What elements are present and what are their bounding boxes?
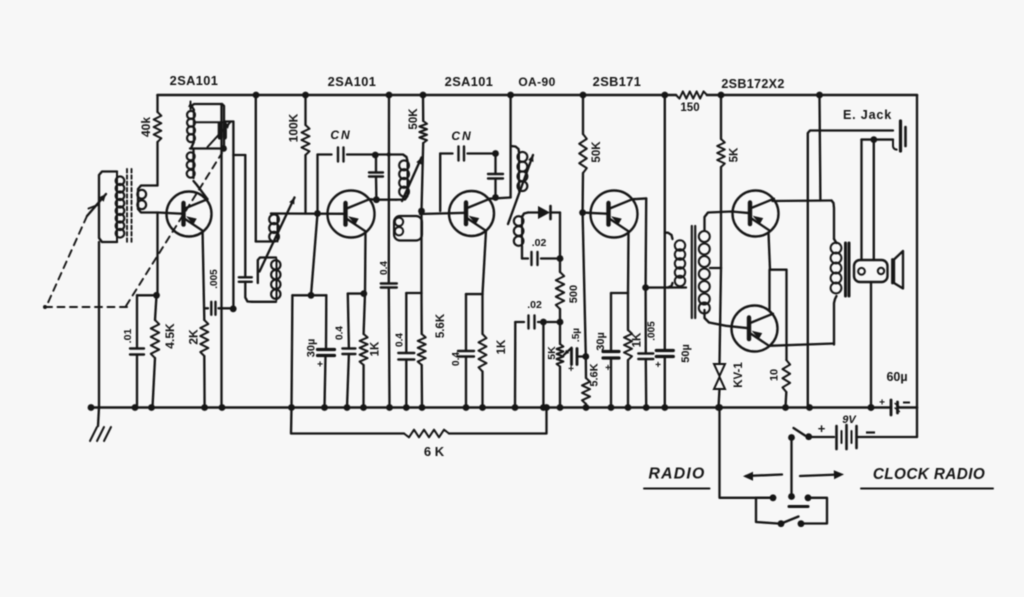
svg-text:2K: 2K [187, 329, 201, 345]
tuning capacitor gang [208, 123, 231, 148]
wire top supply rail [158, 94, 677, 97]
capacitor .005 emitter [204, 269, 233, 315]
capacitor 5u coupling [568, 328, 586, 375]
svg-text:+: + [317, 360, 323, 371]
wire base T2 to bias network [316, 155, 318, 214]
wire bottom ground rail [91, 406, 891, 409]
svg-text:30µ: 30µ [306, 339, 318, 358]
wire .02 left leg [514, 322, 517, 408]
resistor 5K pot lower [546, 322, 563, 408]
wire tuner cap top stub [224, 120, 233, 122]
svg-text:CLOCK RADIO: CLOCK RADIO [873, 466, 985, 483]
wire osc cap branch [233, 155, 245, 277]
diode OA-90 [528, 206, 560, 219]
svg-text:5K: 5K [729, 147, 741, 162]
wire rail to T2 input coil [253, 92, 272, 242]
capacitor .04 bias T3 [395, 293, 422, 408]
wiper arrow volume [564, 348, 572, 355]
svg-text:5K: 5K [546, 346, 558, 360]
wire jog to .01 branch [137, 294, 158, 296]
svg-text:2SA101: 2SA101 [170, 73, 219, 88]
svg-text:CN: CN [330, 128, 351, 142]
capacitor .02 upper [522, 237, 563, 265]
wire .02 tap down [542, 322, 544, 408]
svg-text:2SB171: 2SB171 [593, 74, 642, 89]
svg-text:+: + [568, 364, 574, 375]
svg-text:5.6K: 5.6K [435, 313, 447, 338]
IF transformer T3 secondary coil [514, 213, 528, 259]
wire bias T3 down [420, 211, 422, 293]
resistor 10 emitter [769, 270, 791, 408]
capacitor 50u electrolytic [655, 344, 692, 407]
earphone plug symbol [893, 121, 906, 151]
node collector T2 [370, 198, 377, 201]
svg-text:.02: .02 [532, 237, 547, 249]
svg-text:RADIO: RADIO [649, 466, 706, 483]
svg-text:+: + [605, 363, 611, 374]
wire base T4 [583, 213, 609, 214]
wire emitter T4 [627, 231, 630, 293]
capacitor 0.4 emitter T2 [335, 294, 356, 408]
wire collector T2 to coil [376, 199, 396, 201]
wire rail to output transformer [816, 92, 823, 201]
switch lower S2 [778, 517, 805, 528]
svg-text:1K: 1K [632, 332, 644, 347]
capacitor 30u driver emitter [595, 293, 628, 408]
wire antenna to ground rail [98, 242, 100, 408]
resistor 50K bias stage3 [408, 92, 427, 211]
svg-text:+: + [818, 421, 826, 436]
wire bias node T2 [292, 292, 326, 299]
node bias T1 [153, 292, 160, 299]
coupling coil L2 [137, 186, 157, 213]
capacitor 30u electrolytic [306, 295, 335, 407]
resistor 40k [139, 95, 161, 186]
node tuner box corner [220, 145, 227, 152]
wire collector Q5 [773, 201, 835, 240]
resistor 150 inline in top rail [676, 91, 707, 114]
node .02 tap [540, 319, 547, 326]
svg-text:+: + [879, 398, 885, 409]
node base driver [579, 209, 586, 216]
dashed tuning gang linkage [43, 153, 222, 309]
wire jack sleeve line [806, 131, 893, 411]
speaker [893, 251, 904, 289]
oscillator feedback coil L3b [187, 149, 195, 179]
transistor Q3 2SA101 [449, 191, 494, 236]
IF transformer T2 secondary box [394, 216, 422, 241]
ferrite rod dashed core [127, 169, 132, 243]
svg-text:.01: .01 [122, 329, 134, 344]
wire B+ line to driver transformer [661, 92, 668, 351]
wire jack body to rail [868, 282, 875, 411]
svg-text:OA-90: OA-90 [518, 75, 555, 89]
svg-text:0.4: 0.4 [335, 326, 346, 340]
capacitor osc padder [239, 277, 252, 302]
antenna coil L1 [99, 172, 124, 243]
wire AVC feedback line down [290, 295, 293, 407]
wire transformer primary bottom [646, 286, 686, 288]
svg-text:9V: 9V [842, 414, 857, 426]
svg-text:50K: 50K [408, 108, 420, 130]
wire right border [916, 95, 918, 437]
transistor Q1 2SA101 [167, 192, 212, 237]
svg-text:150: 150 [680, 102, 699, 114]
capacitor .005 driver [638, 288, 657, 408]
capacitor .02 lower [515, 299, 560, 329]
node detector junction [230, 305, 237, 312]
svg-text:1K: 1K [496, 339, 508, 354]
wire emitter T1 / resistor 2K [187, 233, 209, 408]
svg-text:30µ: 30µ [595, 332, 607, 351]
svg-text:0.4: 0.4 [395, 333, 406, 347]
svg-text:0.4: 0.4 [379, 261, 390, 275]
arrow clock radio [800, 470, 844, 479]
svg-text:2SA101: 2SA101 [445, 74, 494, 89]
capacitor 0.4 emitter T3 [451, 294, 474, 407]
variable core arrow T2 [402, 158, 422, 202]
node pot lower [557, 319, 564, 326]
wire jack tip line [862, 136, 894, 143]
wire radio feed from rail [716, 404, 776, 501]
svg-text:KV-1: KV-1 [733, 362, 745, 388]
variable core arrow osc [260, 198, 295, 272]
varistor KV-1 [714, 268, 745, 408]
svg-text:E. Jack: E. Jack [843, 108, 892, 122]
wire right throw [801, 498, 827, 524]
svg-text:2SA101: 2SA101 [328, 74, 377, 89]
svg-text:1K: 1K [370, 341, 382, 356]
wire left throw [756, 498, 778, 524]
svg-text:500: 500 [568, 285, 580, 303]
svg-text:2SB172X2: 2SB172X2 [721, 77, 784, 91]
wire emitter T3 [466, 231, 486, 294]
driver transformer primary winding [665, 233, 685, 288]
wire jack conductor A [860, 140, 862, 260]
node CN junction [372, 152, 379, 159]
output transformer core [846, 243, 850, 296]
resistor 5K output bias [717, 92, 740, 268]
svg-text:0.4: 0.4 [451, 352, 462, 366]
svg-text:50µ: 50µ [680, 344, 692, 363]
wire secondary top to upper base [705, 212, 751, 231]
resistor 1K emitter T3 [479, 294, 509, 407]
wire 40k to bias node [156, 213, 158, 296]
jack body [854, 260, 888, 282]
wire rail to IF transformer T3 [507, 92, 514, 198]
variable core arrow T3 [508, 155, 534, 224]
label RADIO [644, 466, 710, 489]
svg-text:5.6K: 5.6K [589, 363, 601, 386]
junction dots bottom rail [88, 404, 875, 411]
node collector T4 junction [642, 284, 649, 291]
transistor Q6 2SB172 [732, 306, 778, 352]
node CN2 junction [492, 150, 499, 157]
svg-text:10: 10 [769, 369, 781, 381]
transistor Q5 2SB172 [733, 191, 779, 237]
svg-text:CN: CN [451, 129, 472, 143]
svg-text:.005: .005 [647, 321, 658, 341]
wire collector T1 to osc coil [194, 181, 208, 199]
selector switch contacts [789, 494, 811, 506]
wire tuner to detector node vertical [232, 122, 234, 309]
wire tuner inner vertical long [220, 104, 222, 408]
wire base T2 [271, 212, 346, 215]
svg-text:4.5K: 4.5K [163, 323, 177, 349]
capacitor 60u electrolytic [879, 370, 910, 415]
output transformer primary winding [831, 239, 842, 345]
antenna tuning arrow [87, 194, 106, 216]
wire bias driver down [582, 213, 589, 360]
transistor Q4 2SB171 [591, 191, 638, 238]
resistor 100K [287, 92, 310, 214]
svg-text:+: + [655, 360, 661, 371]
svg-text:40k: 40k [139, 117, 153, 137]
wire base T1 [158, 213, 185, 214]
T2 input coil L4 [269, 214, 279, 242]
svg-text:.02: .02 [527, 299, 542, 311]
driver transformer core [692, 226, 695, 318]
IF transformer T2 primary coil [375, 155, 409, 200]
node collector T3 [492, 194, 499, 201]
capacitor 0.4 decoupling [379, 261, 397, 408]
oscillator secondary box L3c [252, 258, 280, 302]
resistor 1K emitter T2 [360, 294, 382, 408]
svg-text:6 K: 6 K [424, 444, 445, 459]
resistor 5.6K bias T3 [418, 293, 447, 408]
resistor 5.6K driver bias [582, 357, 601, 408]
potentiometer 500 volume [556, 272, 580, 322]
capacitor collector T2 [369, 155, 383, 200]
wire secondary center tap [710, 267, 721, 269]
capacitor CN neutralizing stage3 [440, 129, 495, 211]
svg-text:100K: 100K [287, 113, 301, 142]
wire feedback loop [291, 408, 547, 434]
svg-text:50K: 50K [591, 141, 603, 163]
wire collector Q6 [769, 344, 834, 346]
wire emitter T2 [348, 231, 367, 297]
IF transformer T3 primary coil [511, 146, 528, 191]
node base T3 bias [418, 208, 425, 215]
node base T2 [314, 210, 321, 217]
capacitor CN neutralizing stage2 [318, 128, 376, 162]
transistor Q2 2SA101 [328, 191, 375, 238]
resistor 50K bias driver [579, 92, 603, 213]
driver transformer secondary winding [699, 231, 710, 314]
switch power S1 [788, 428, 812, 441]
resistor 6K [404, 430, 449, 459]
svg-text:60µ: 60µ [886, 370, 907, 384]
wire detector to volume pot [559, 213, 561, 273]
wire B+ decoupling stage2 [386, 92, 393, 284]
resistor 1K emitter T4 [624, 293, 644, 408]
wire switch pole down [788, 438, 795, 500]
battery 9V [809, 414, 917, 449]
wire collector T4 [633, 198, 647, 287]
wire emitters join [769, 233, 787, 314]
wire collector T3 [490, 198, 511, 199]
capacitor collector T3 [488, 154, 503, 198]
ground [90, 408, 111, 442]
svg-text:.5µ: .5µ [571, 328, 582, 342]
tuner box with oscillator coil L3 [187, 102, 224, 149]
arrow radio [743, 472, 782, 481]
label CLOCK RADIO [861, 466, 993, 489]
wire jack conductor B [873, 140, 875, 260]
capacitor .01 [122, 295, 144, 407]
svg-text:.005: .005 [209, 269, 220, 289]
resistor 4.5K [151, 295, 177, 407]
wire base T3 [420, 213, 467, 214]
wire secondary bottom to lower base [705, 310, 750, 328]
